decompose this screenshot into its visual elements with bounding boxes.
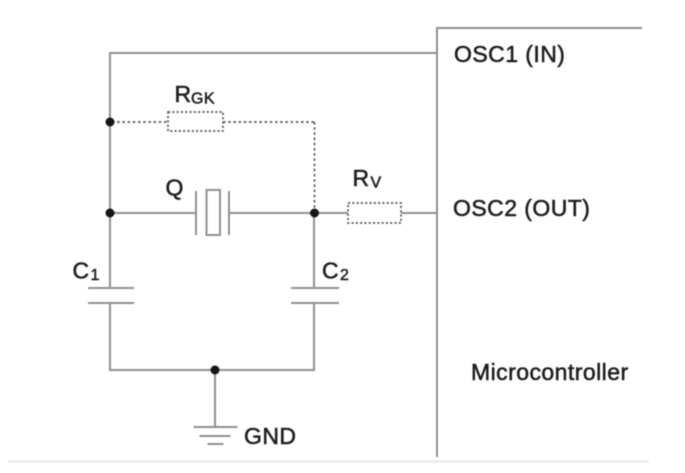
svg-text:OSC1 (IN): OSC1 (IN): [454, 41, 565, 67]
svg-text:GND: GND: [244, 423, 296, 449]
svg-text:V: V: [371, 175, 382, 192]
svg-text:2: 2: [340, 267, 349, 284]
svg-text:C: C: [322, 258, 339, 284]
svg-text:GK: GK: [191, 91, 215, 108]
svg-text:Microcontroller: Microcontroller: [471, 359, 629, 385]
svg-text:C: C: [73, 258, 90, 284]
svg-text:OSC2 (OUT): OSC2 (OUT): [453, 195, 590, 221]
svg-text:R: R: [353, 165, 370, 191]
svg-text:R: R: [175, 81, 192, 107]
svg-text:Q: Q: [166, 175, 184, 201]
svg-text:1: 1: [91, 267, 100, 284]
